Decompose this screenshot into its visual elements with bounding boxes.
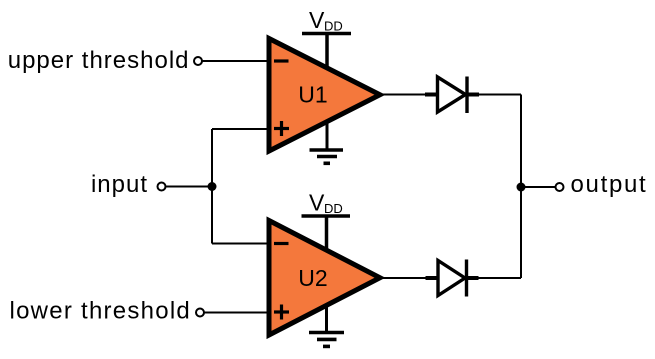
wire upper threshold to U1 inverting input: [203, 60, 270, 62]
node input junction: [208, 182, 217, 191]
diode D2: [426, 260, 479, 297]
op-amp U1: [269, 39, 380, 152]
svg-text:V: V: [309, 7, 325, 33]
power VDD of U2: [302, 190, 351, 250]
wire input terminal to junction: [166, 186, 212, 188]
wire lower threshold to U2 non-inverting input: [205, 312, 270, 314]
svg-text:upper threshold: upper threshold: [8, 47, 190, 74]
ground of U2: [309, 304, 344, 346]
svg-text:input: input: [91, 171, 148, 198]
wire to U2 inverting input: [212, 243, 269, 245]
wire D2 cathode to right rail: [467, 277, 522, 279]
wire output junction to terminal: [521, 186, 555, 188]
power VDD of U1: [302, 7, 351, 66]
wire to U1 non-inverting input: [212, 128, 269, 130]
svg-text:output: output: [571, 171, 648, 198]
svg-text:lower threshold: lower threshold: [10, 298, 192, 325]
svg-text:DD: DD: [324, 19, 343, 34]
terminal input: [158, 183, 166, 191]
wire right rail vertical: [520, 95, 522, 279]
terminal output: [556, 183, 564, 191]
svg-text:V: V: [309, 190, 325, 216]
wire U2 output to diode D2: [378, 277, 439, 279]
svg-text:U1: U1: [298, 82, 327, 108]
terminal upper threshold: [194, 57, 202, 65]
svg-text:U2: U2: [298, 265, 327, 291]
terminal lower threshold: [196, 309, 204, 317]
svg-text:DD: DD: [324, 201, 343, 216]
op-amp U2: [269, 221, 380, 336]
wire U1 output to diode D1: [378, 94, 439, 96]
diode D1: [425, 77, 479, 114]
node output junction: [517, 183, 526, 192]
ground of U1: [310, 121, 344, 163]
wire input vertical bus: [211, 129, 213, 244]
wire D1 cathode to right rail: [467, 94, 521, 96]
